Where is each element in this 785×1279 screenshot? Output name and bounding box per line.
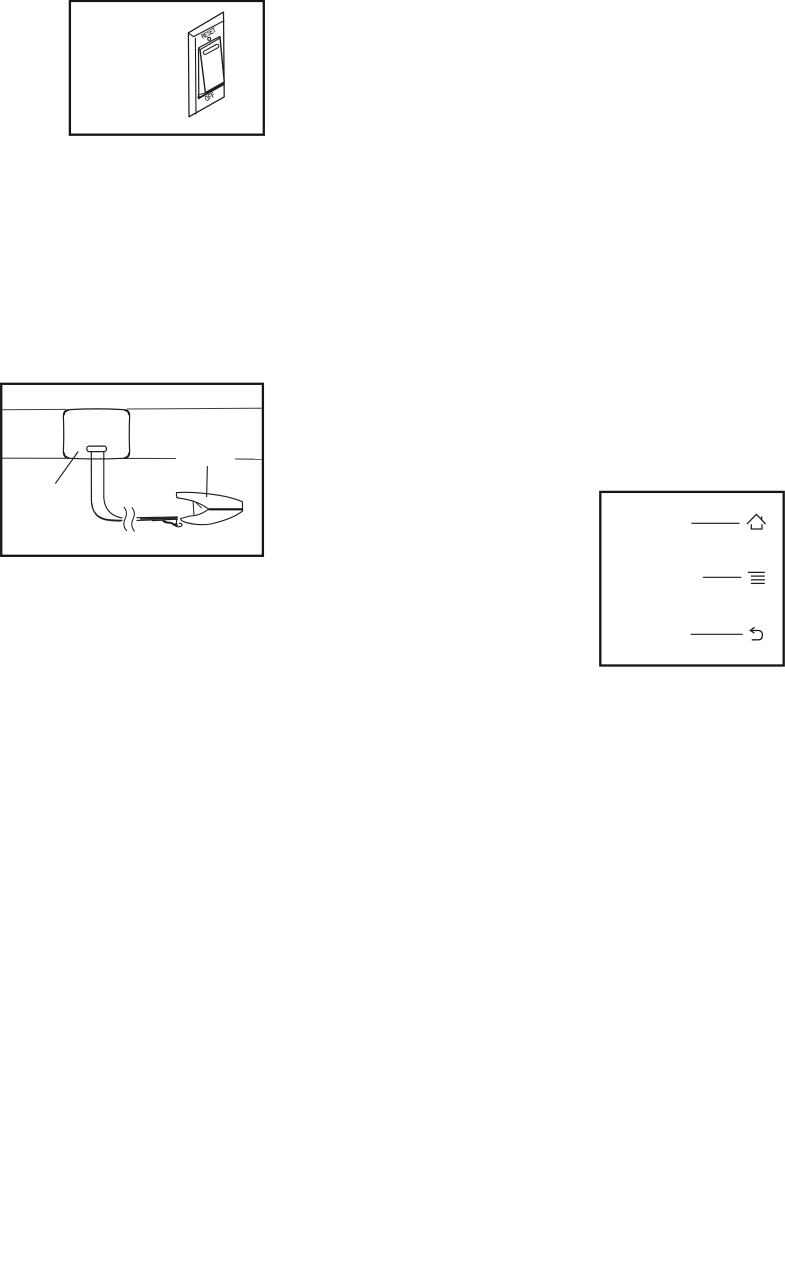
figure 1: rocker switch (199, 36, 225, 93)
figure 1: wall switch plate outer edge (188, 12, 224, 117)
figure 3: leader line to home button (691, 522, 739, 524)
figure 3: home icon (747, 514, 765, 529)
figure 2: ground clamp upper jaw (176, 492, 242, 515)
figure 1: screw (208, 37, 211, 40)
figure 2: plate corner shade marks (64, 410, 129, 458)
figure 2: wall line lower right segment (235, 458, 262, 460)
figure 1: plate bevel edge (189, 21, 224, 114)
figure 1: rocker grip slot (203, 44, 220, 55)
figure 1 frame (reset switch illustration box) (70, 1, 264, 135)
figure 2: wall line upper (2, 408, 262, 410)
figure 2: wall line lower left segment (2, 457, 176, 459)
figure 2: clamp mouth seam (209, 508, 243, 510)
figure 2: outlet cover plate (63, 409, 129, 459)
figure 3: leader line to menu button (703, 576, 741, 578)
figure 1: switch bezel opening (199, 49, 225, 99)
figure 2: strap end curl around clamp tip (162, 519, 182, 526)
figure 1: OFF label (205, 92, 216, 101)
figure 2: strap horizontal run (137, 517, 178, 521)
figure 2: leader line to clamp (206, 466, 209, 497)
figure 1: RESET label (201, 28, 216, 39)
figure 2 frame (grounding illustration box) (1, 384, 263, 556)
figure 2: ground strap (91, 452, 122, 522)
figure 2: leader line to plate (55, 452, 78, 484)
figure 2: strap break squiggles (124, 507, 135, 531)
figure 3: back icon (750, 627, 762, 640)
figure 2: ground clamp lower jaw (181, 502, 243, 525)
figure 3: menu icon (748, 572, 765, 583)
figure 3: leader line to back button (691, 633, 743, 635)
figure 3 frame (console buttons box) (600, 492, 783, 666)
figure 2: grounding tab plug (87, 446, 107, 452)
